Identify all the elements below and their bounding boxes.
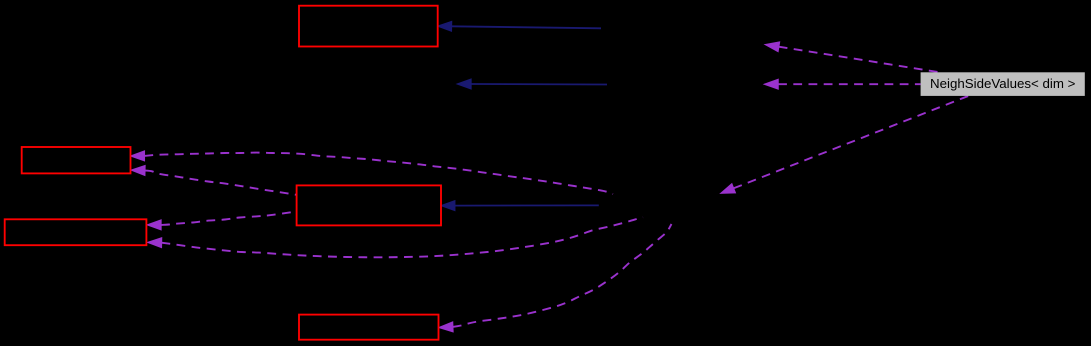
wire inheritance-edge from hidden node1 to top box (blue solid) — [438, 22, 601, 32]
wire inheritance-edge from hidden node3 to center box (blue solid) — [441, 201, 599, 211]
wire usage-edge from NeighSideValues to hidden node2 (dashed) — [765, 79, 921, 89]
node top box (red, truncated) — [299, 6, 438, 47]
wire inheritance-edge from hidden node2 to hidden node4 (blue solid) — [458, 79, 608, 89]
wire usage-edge from center box to left box2 (dashed) — [148, 212, 297, 230]
wire usage-edge curve from hidden node3 to left box1 (dashed) — [131, 151, 613, 194]
svg-text:NeighSideValues< dim >: NeighSideValues< dim > — [930, 76, 1076, 91]
wire usage-edge curve from hidden node3 to left box2 (dashed) — [148, 217, 643, 257]
node center box (red, truncated) — [297, 185, 441, 225]
node bottom box (red, truncated) — [299, 315, 439, 340]
wire usage-edge curve from hidden node3 to bottom box (dashed) — [439, 224, 671, 332]
wire usage-edge from NeighSideValues to hidden node3 (dashed) — [721, 96, 969, 193]
wire usage-edge from center box to left box1 (dashed) — [131, 166, 296, 195]
node left box2 (red, truncated) — [5, 219, 147, 245]
node left box1 (red, truncated) — [22, 147, 131, 173]
wire usage-edge from NeighSideValues to hidden node1 (dashed) — [765, 42, 940, 72]
node NeighSideValues< dim > (current, grey) — [921, 72, 1085, 96]
